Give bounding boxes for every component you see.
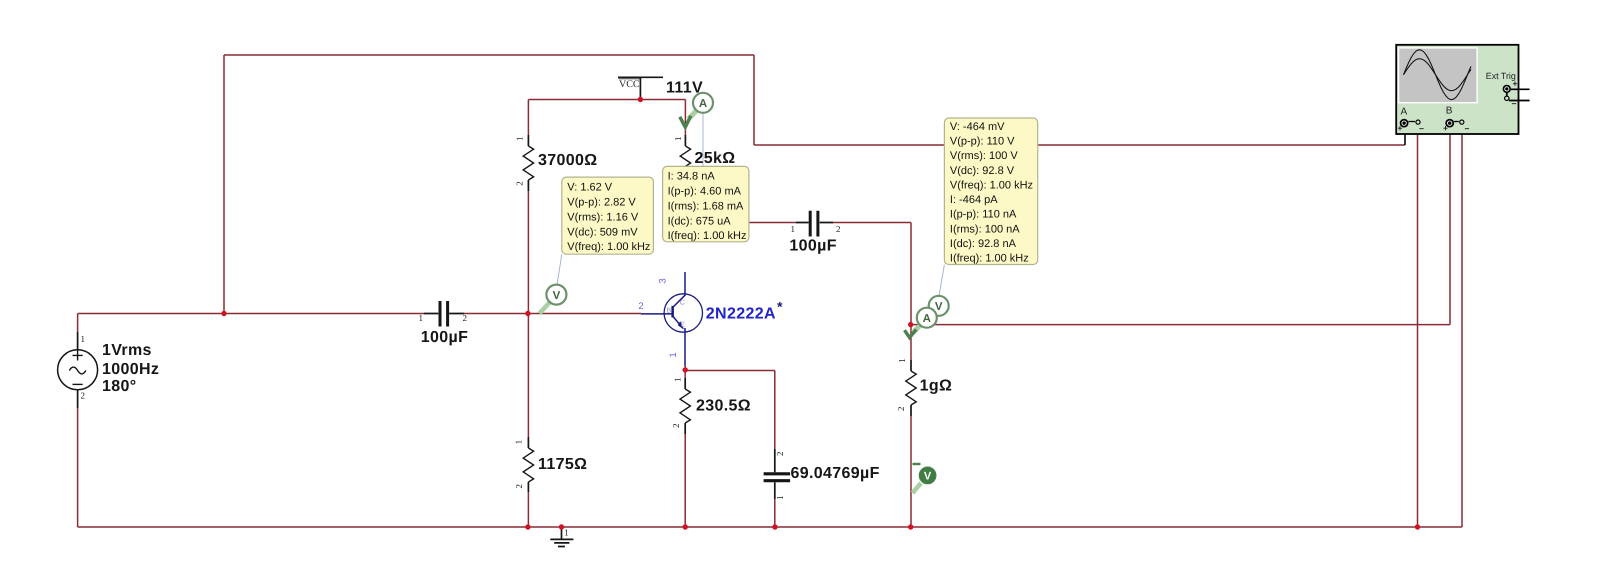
svg-text:I: 34.8 nA: I: 34.8 nA bbox=[668, 171, 716, 183]
svg-text:*: * bbox=[777, 299, 783, 315]
svg-text:V(rms): 100 V: V(rms): 100 V bbox=[950, 150, 1019, 162]
svg-text:1: 1 bbox=[668, 352, 679, 357]
svg-text:100µF: 100µF bbox=[421, 329, 468, 346]
svg-text:V(freq): 1.00 kHz: V(freq): 1.00 kHz bbox=[950, 179, 1033, 191]
svg-text:−: − bbox=[1465, 124, 1470, 134]
svg-text:B: B bbox=[1446, 106, 1453, 117]
svg-text:I(freq): 1.00 kHz: I(freq): 1.00 kHz bbox=[668, 230, 747, 242]
svg-text:+: + bbox=[1443, 123, 1448, 133]
svg-text:1: 1 bbox=[775, 495, 785, 500]
svg-text:I(rms): 100 nA: I(rms): 100 nA bbox=[950, 223, 1020, 235]
svg-text:1: 1 bbox=[514, 440, 524, 445]
svg-text:E: E bbox=[681, 322, 686, 329]
svg-text:111V: 111V bbox=[666, 80, 703, 97]
svg-text:I(dc): 675 uA: I(dc): 675 uA bbox=[668, 215, 732, 227]
svg-text:V: 1.62 V: V: 1.62 V bbox=[567, 182, 613, 194]
svg-text:69.04769µF: 69.04769µF bbox=[791, 465, 880, 482]
svg-text:180°: 180° bbox=[102, 378, 137, 395]
svg-text:25kΩ: 25kΩ bbox=[695, 150, 736, 167]
svg-text:1: 1 bbox=[897, 358, 907, 363]
svg-text:I(p-p): 110 nA: I(p-p): 110 nA bbox=[950, 209, 1017, 221]
svg-text:2N2222A: 2N2222A bbox=[706, 306, 776, 323]
svg-text:1: 1 bbox=[81, 334, 86, 344]
svg-text:37000Ω: 37000Ω bbox=[538, 152, 597, 169]
svg-text:I(rms): 1.68 mA: I(rms): 1.68 mA bbox=[668, 200, 744, 212]
svg-text:C: C bbox=[680, 300, 685, 307]
svg-text:I(p-p): 4.60 mA: I(p-p): 4.60 mA bbox=[668, 186, 742, 198]
svg-text:V(freq): 1.00 kHz: V(freq): 1.00 kHz bbox=[567, 241, 650, 253]
svg-text:1Vrms: 1Vrms bbox=[102, 342, 152, 359]
svg-text:I: -464 pA: I: -464 pA bbox=[950, 194, 998, 206]
svg-text:+: + bbox=[1513, 79, 1518, 89]
svg-text:1000Hz: 1000Hz bbox=[102, 361, 159, 378]
svg-text:2: 2 bbox=[671, 423, 681, 428]
svg-text:V(rms): 1.16 V: V(rms): 1.16 V bbox=[567, 211, 639, 223]
svg-text:−: − bbox=[1512, 99, 1517, 109]
svg-text:2: 2 bbox=[514, 484, 524, 489]
svg-text:1175Ω: 1175Ω bbox=[538, 456, 587, 473]
svg-text:+: + bbox=[1398, 123, 1403, 133]
svg-text:V(p-p): 110 V: V(p-p): 110 V bbox=[950, 135, 1015, 147]
svg-text:3: 3 bbox=[658, 278, 669, 283]
svg-text:V(dc): 92.8 V: V(dc): 92.8 V bbox=[950, 165, 1015, 177]
svg-text:A: A bbox=[923, 313, 931, 325]
svg-text:V(p-p): 2.82 V: V(p-p): 2.82 V bbox=[567, 197, 636, 209]
svg-text:V: V bbox=[924, 471, 932, 483]
svg-text:2: 2 bbox=[836, 224, 841, 234]
svg-text:230.5Ω: 230.5Ω bbox=[696, 398, 751, 415]
svg-text:Ext Trig: Ext Trig bbox=[1486, 71, 1516, 81]
svg-text:1: 1 bbox=[673, 136, 683, 141]
svg-text:A: A bbox=[699, 98, 707, 110]
svg-text:A: A bbox=[1401, 107, 1408, 118]
svg-text:V: -464 mV: V: -464 mV bbox=[950, 121, 1005, 133]
svg-text:1: 1 bbox=[419, 313, 424, 323]
svg-text:−: − bbox=[1419, 124, 1424, 134]
svg-text:VCC: VCC bbox=[619, 79, 640, 90]
svg-text:1gΩ: 1gΩ bbox=[920, 378, 953, 395]
svg-text:1: 1 bbox=[514, 136, 524, 141]
svg-text:V: V bbox=[935, 301, 943, 313]
svg-text:1: 1 bbox=[673, 378, 683, 383]
svg-text:2: 2 bbox=[81, 391, 86, 401]
svg-text:V(dc): 509 mV: V(dc): 509 mV bbox=[567, 226, 638, 238]
svg-text:2: 2 bbox=[896, 407, 906, 412]
svg-text:V: V bbox=[553, 290, 561, 302]
svg-text:2: 2 bbox=[638, 301, 643, 312]
svg-text:I(dc): 92.8 nA: I(dc): 92.8 nA bbox=[950, 238, 1017, 250]
svg-text:I(freq): 1.00 kHz: I(freq): 1.00 kHz bbox=[950, 253, 1029, 265]
svg-text:2: 2 bbox=[463, 313, 468, 323]
svg-text:2: 2 bbox=[775, 451, 785, 456]
svg-text:1: 1 bbox=[564, 528, 569, 538]
svg-text:B: B bbox=[667, 308, 672, 315]
svg-text:100µF: 100µF bbox=[789, 238, 836, 255]
svg-text:2: 2 bbox=[514, 181, 524, 186]
svg-text:1: 1 bbox=[791, 224, 796, 234]
